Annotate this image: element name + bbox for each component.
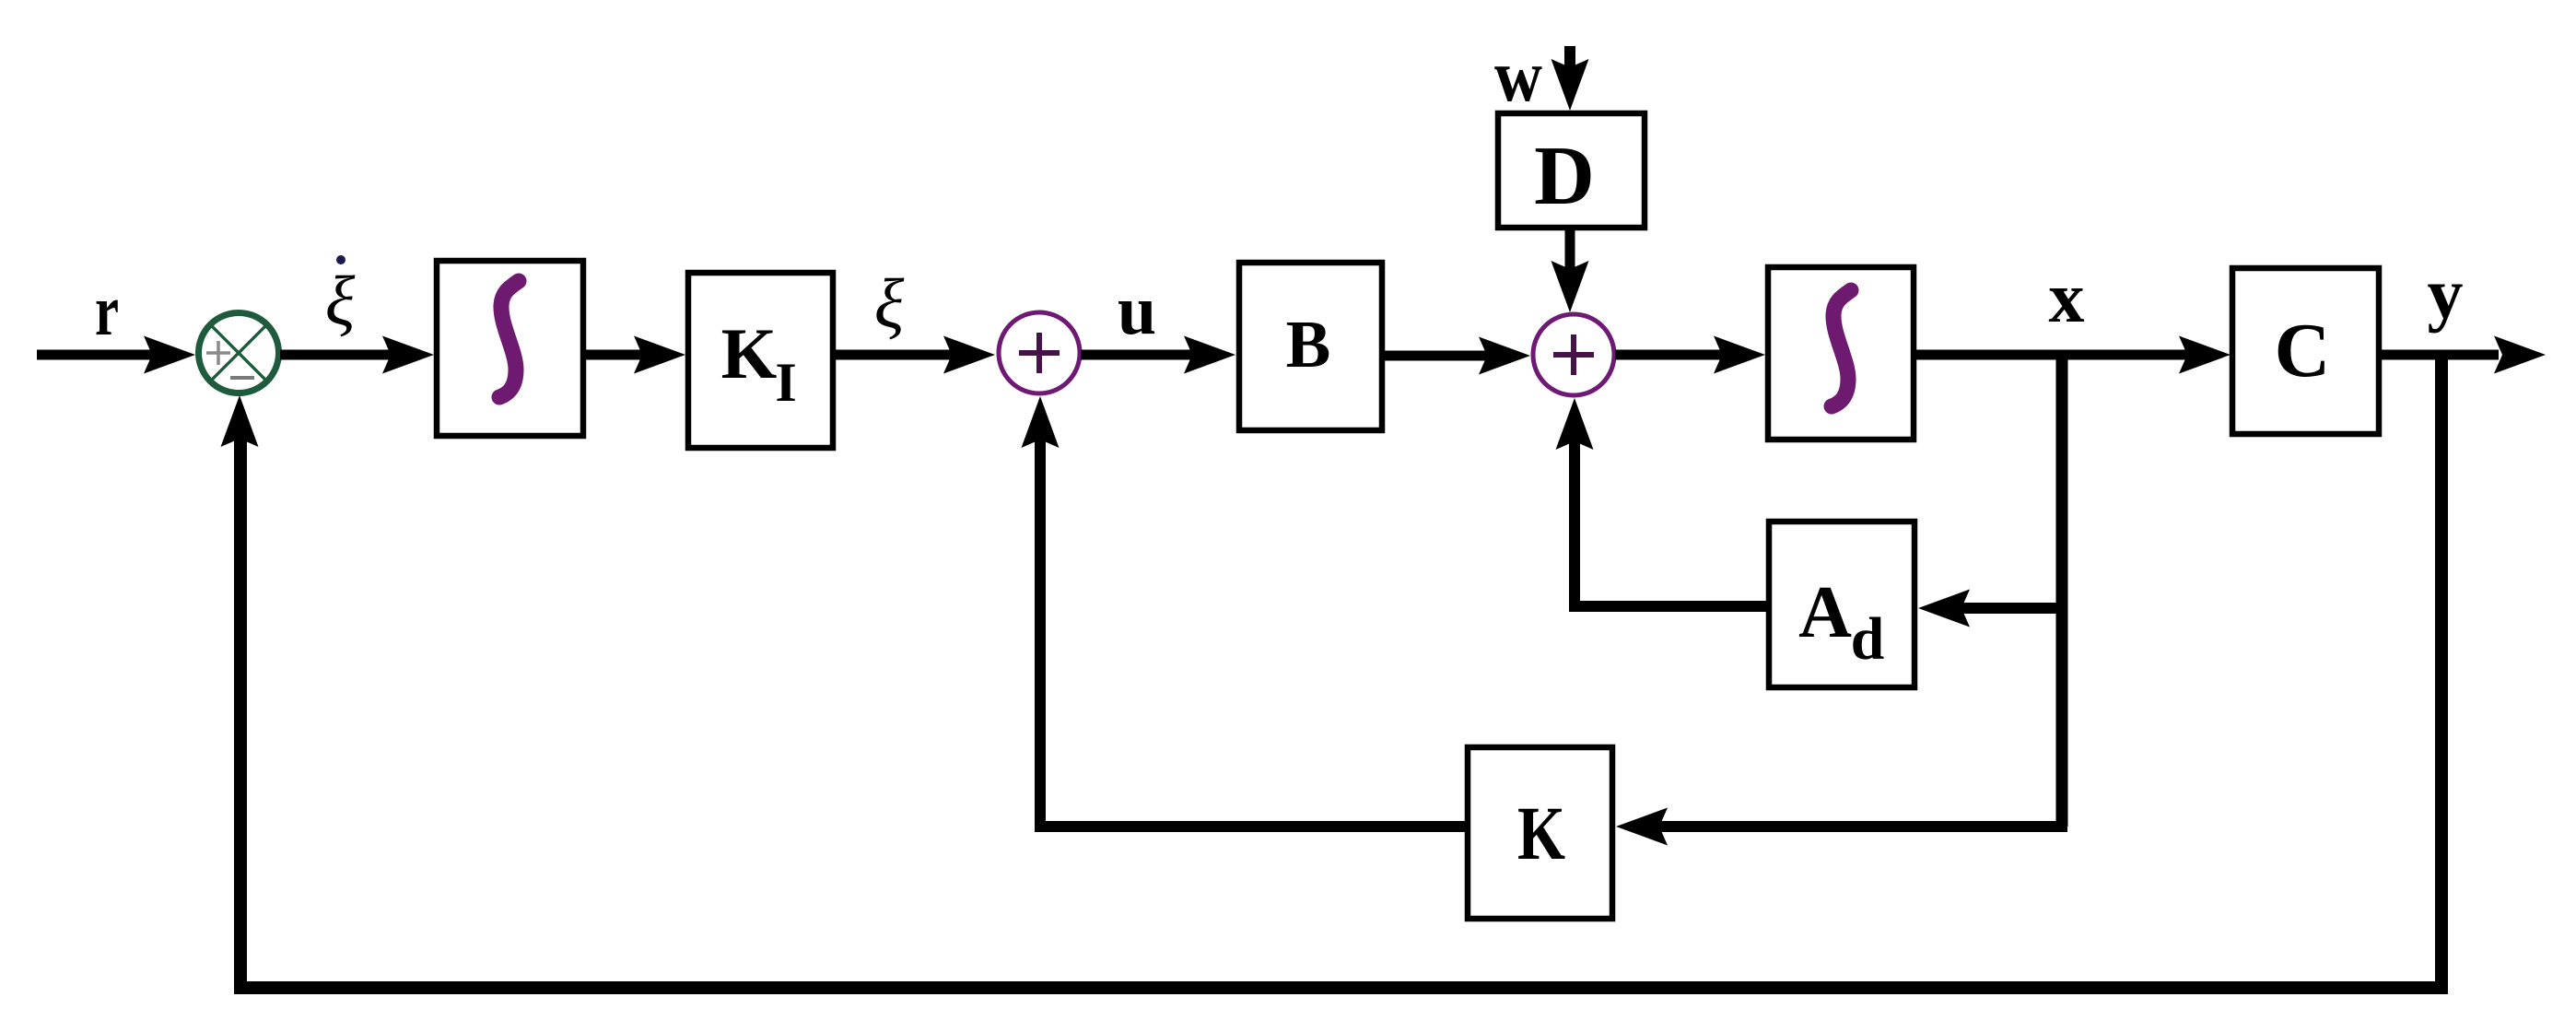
wire: x branch vertical down bbox=[2056, 355, 2068, 827]
wire: y feedback bottom loop bbox=[240, 355, 2441, 988]
arrowhead into S2 bbox=[943, 336, 995, 374]
wire: B to summing circle S3 bbox=[1382, 351, 1495, 361]
svg-text:A: A bbox=[1798, 572, 1852, 653]
wire: input r bbox=[37, 350, 162, 360]
block KI bbox=[688, 273, 833, 448]
svg-text:r: r bbox=[95, 270, 119, 350]
arrowhead into C bbox=[2179, 336, 2231, 374]
integrator block I1 bbox=[437, 261, 583, 436]
svg-text:y: y bbox=[2428, 253, 2464, 334]
arrowhead into integrator 1 bbox=[382, 336, 434, 374]
block B bbox=[1239, 263, 1382, 430]
arrowhead into K right side bbox=[1616, 808, 1668, 846]
minus sign in S1 bbox=[230, 376, 254, 380]
svg-text:ξ: ξ bbox=[325, 263, 356, 340]
wire: integrator 2 to C with x branch bbox=[1914, 350, 2197, 360]
wire: A_d output to S3 from below bbox=[1575, 433, 1769, 606]
wire: S1 to integrator 1 bbox=[280, 350, 401, 360]
block C bbox=[2232, 268, 2379, 434]
block D bbox=[1498, 113, 1645, 228]
wire: C output y bbox=[2379, 350, 2499, 360]
svg-text:u: u bbox=[1118, 272, 1156, 349]
arrowhead into D top bbox=[1551, 59, 1589, 111]
wire: integrator 1 to KI bbox=[583, 350, 652, 360]
svg-text:K: K bbox=[1517, 791, 1565, 875]
arrowhead into KI bbox=[634, 336, 685, 374]
block A_d bbox=[1769, 522, 1914, 687]
arrowhead into S3 top bbox=[1551, 261, 1589, 312]
summing junction S1 (green circle with X) bbox=[199, 313, 279, 393]
output arrowhead bbox=[2494, 336, 2546, 374]
plus sign in S1 bbox=[206, 341, 230, 365]
summing circle S2 (purple plus) bbox=[999, 312, 1080, 393]
arrowhead into B bbox=[1184, 336, 1235, 374]
wire: K input from x branch bbox=[1649, 821, 2067, 832]
arrowhead into S3 bbox=[1479, 337, 1530, 375]
svg-text:C: C bbox=[2275, 308, 2331, 393]
integrator block I2 bbox=[1768, 267, 1914, 440]
arrowhead into S3 bottom bbox=[1556, 398, 1594, 450]
arrowhead into S1 bottom bbox=[221, 395, 259, 447]
svg-text:D: D bbox=[1534, 129, 1595, 222]
svg-text:ξ: ξ bbox=[874, 265, 905, 343]
wire: D down to S3 bbox=[1565, 228, 1575, 278]
wire: S3 to integrator 2 bbox=[1615, 350, 1732, 360]
arrowhead into A_d right side bbox=[1918, 590, 1970, 627]
svg-text:d: d bbox=[1851, 605, 1885, 673]
svg-text:B: B bbox=[1286, 307, 1331, 381]
wire: w input down to D bbox=[1564, 46, 1575, 78]
wire: A_d input from x branch bbox=[1953, 603, 2067, 614]
wire: S2 to B bbox=[1081, 350, 1200, 360]
summing circle S3 (purple plus) bbox=[1533, 314, 1614, 395]
svg-text:K: K bbox=[721, 313, 778, 393]
svg-text:w: w bbox=[1494, 36, 1542, 117]
wire: KI to summing circle S2 bbox=[833, 350, 960, 360]
label xi-dot bbox=[325, 255, 356, 340]
arrowhead into S2 bottom bbox=[1022, 396, 1060, 448]
svg-text:I: I bbox=[775, 352, 796, 413]
arrowhead into summing junction S1 bbox=[144, 336, 195, 374]
block K bbox=[1468, 747, 1612, 919]
arrowhead into integrator 2 bbox=[1714, 336, 1765, 374]
wire: K output to S2 from below bbox=[1040, 431, 1468, 827]
svg-text:x: x bbox=[2049, 257, 2085, 337]
